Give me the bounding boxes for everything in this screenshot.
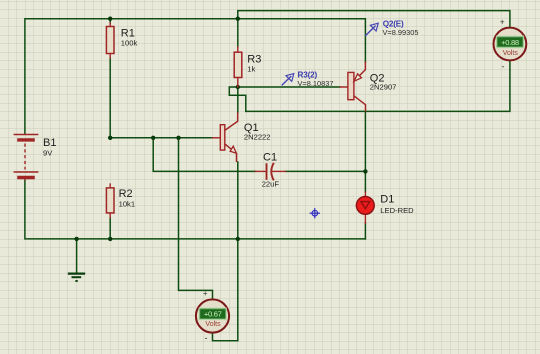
- svg-text:2N2222: 2N2222: [244, 132, 271, 141]
- svg-text:R2: R2: [119, 188, 133, 200]
- svg-text:2N2907: 2N2907: [370, 83, 397, 92]
- svg-text:B1: B1: [43, 137, 56, 149]
- svg-text:9V: 9V: [43, 149, 53, 158]
- svg-text:+0.67: +0.67: [204, 310, 222, 319]
- svg-text:C1: C1: [263, 152, 277, 164]
- svg-text:+0.88: +0.88: [501, 38, 519, 47]
- svg-text:1k: 1k: [247, 65, 255, 74]
- svg-text:10k1: 10k1: [119, 200, 135, 209]
- svg-text:Volts: Volts: [205, 321, 221, 328]
- svg-text:-: -: [205, 333, 208, 343]
- svg-text:-: -: [502, 61, 505, 71]
- svg-text:D1: D1: [380, 194, 394, 206]
- svg-text:100k: 100k: [121, 39, 138, 48]
- svg-text:+: +: [500, 18, 505, 27]
- svg-text:LED-RED: LED-RED: [380, 206, 414, 215]
- svg-text:R1: R1: [121, 27, 135, 39]
- svg-text:V=8.10837: V=8.10837: [298, 79, 334, 88]
- svg-text:22uF: 22uF: [262, 179, 280, 188]
- svg-text:+: +: [203, 289, 208, 298]
- svg-text:V=8.99305: V=8.99305: [383, 28, 419, 37]
- svg-text:Volts: Volts: [503, 50, 519, 57]
